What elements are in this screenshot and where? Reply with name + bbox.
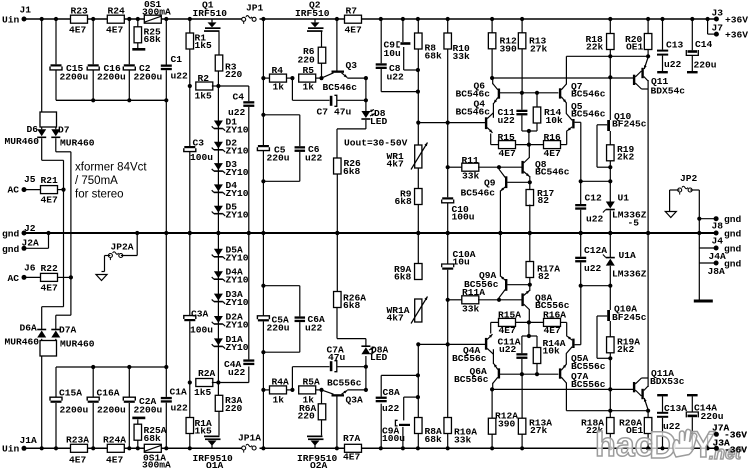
svg-text:C8A: C8A: [383, 387, 401, 398]
svg-text:BC556c: BC556c: [454, 374, 489, 385]
svg-text:2k2: 2k2: [617, 152, 635, 163]
svg-text:ZY10: ZY10: [226, 210, 249, 221]
svg-text:J4: J4: [712, 236, 724, 247]
svg-text:+36V: +36V: [725, 29, 748, 40]
svg-text:2200u: 2200u: [97, 72, 126, 83]
svg-text:33k: 33k: [462, 171, 480, 182]
svg-text:gnd: gnd: [724, 258, 742, 269]
svg-text:4k7: 4k7: [387, 158, 405, 169]
svg-text:4E7: 4E7: [106, 454, 124, 465]
svg-text:R11: R11: [462, 155, 480, 166]
svg-text:4E7: 4E7: [69, 454, 87, 465]
svg-text:4E7: 4E7: [544, 148, 562, 159]
svg-text:100u: 100u: [452, 211, 475, 222]
svg-text:10u: 10u: [384, 48, 402, 59]
svg-text:R24: R24: [108, 5, 126, 16]
svg-text:220: 220: [225, 69, 243, 80]
svg-text:ZY10: ZY10: [226, 146, 249, 157]
svg-text:R15: R15: [498, 132, 516, 143]
svg-text:gnd: gnd: [724, 228, 742, 239]
svg-text:1k: 1k: [303, 81, 315, 92]
svg-text:6k8: 6k8: [395, 196, 413, 207]
svg-text:R4: R4: [272, 65, 284, 76]
svg-text:390: 390: [500, 43, 518, 54]
svg-text:10u: 10u: [453, 256, 471, 267]
svg-text:R5A: R5A: [303, 377, 321, 388]
svg-text:BDX53c: BDX53c: [650, 376, 685, 387]
svg-text:68k: 68k: [425, 50, 443, 61]
svg-text:C13A: C13A: [664, 403, 687, 414]
svg-text:100u: 100u: [190, 152, 213, 163]
svg-text:220u: 220u: [267, 152, 290, 163]
svg-text:2200u: 2200u: [60, 72, 89, 83]
svg-text:gnd: gnd: [724, 243, 742, 254]
svg-text:300mA: 300mA: [142, 6, 171, 17]
svg-text:27k: 27k: [530, 425, 548, 436]
svg-text:1k: 1k: [273, 394, 285, 405]
svg-text:47u: 47u: [334, 107, 352, 118]
svg-text:LM336Z: LM336Z: [612, 269, 647, 280]
svg-text:u22: u22: [305, 152, 323, 163]
svg-text:Uin: Uin: [2, 14, 20, 25]
svg-text:BF245c: BF245c: [612, 312, 647, 323]
svg-text:u22: u22: [584, 263, 602, 274]
svg-text:2200u: 2200u: [97, 404, 126, 415]
svg-text:220u: 220u: [267, 323, 290, 334]
svg-text:J3: J3: [712, 7, 724, 18]
svg-text:J8: J8: [712, 221, 724, 232]
svg-text:JP1A: JP1A: [238, 433, 261, 444]
svg-text:/ 750mA: / 750mA: [75, 175, 118, 187]
svg-text:U1: U1: [618, 192, 630, 203]
svg-text:u22: u22: [664, 59, 682, 70]
svg-text:4E7: 4E7: [69, 24, 87, 35]
svg-text:R4A: R4A: [272, 377, 290, 388]
svg-text:xformer 84Vct: xformer 84Vct: [75, 162, 147, 174]
svg-text:C12: C12: [585, 192, 603, 203]
svg-text:4E7: 4E7: [41, 283, 59, 294]
svg-text:U1A: U1A: [619, 250, 637, 261]
svg-text:D7: D7: [58, 124, 70, 135]
svg-text:Q3: Q3: [346, 60, 358, 71]
svg-text:R2A: R2A: [198, 368, 216, 379]
svg-text:4E7: 4E7: [499, 148, 517, 159]
svg-text:68k: 68k: [144, 433, 162, 444]
svg-text:LED: LED: [370, 116, 388, 127]
svg-text:4E7: 4E7: [544, 325, 562, 336]
svg-text:gnd: gnd: [2, 229, 20, 240]
svg-text:+36V: +36V: [725, 14, 748, 25]
svg-text:IRF9510: IRF9510: [297, 453, 338, 464]
svg-text:220u: 220u: [701, 411, 724, 422]
svg-text:BC546c: BC546c: [535, 167, 570, 178]
svg-text:2200u: 2200u: [134, 72, 163, 83]
svg-text:1k5: 1k5: [195, 91, 213, 102]
svg-text:Q3A: Q3A: [346, 395, 364, 406]
svg-text:220: 220: [298, 411, 316, 422]
svg-text:68k: 68k: [144, 34, 162, 45]
svg-text:C15A: C15A: [59, 387, 82, 398]
svg-text:hac: hac: [595, 426, 654, 464]
svg-text:ZY10: ZY10: [226, 167, 249, 178]
svg-text:10k: 10k: [543, 346, 561, 357]
svg-text:MUR460: MUR460: [60, 338, 95, 349]
svg-text:J5: J5: [24, 174, 36, 185]
svg-text:1k5: 1k5: [194, 387, 212, 398]
svg-text:MUR460: MUR460: [5, 336, 40, 347]
svg-text:C13: C13: [666, 39, 684, 50]
svg-text:R21: R21: [41, 175, 59, 186]
svg-text:ZY10: ZY10: [226, 320, 249, 331]
svg-text:D7A: D7A: [59, 324, 77, 335]
svg-text:C1A: C1A: [170, 386, 188, 397]
svg-text:C7: C7: [317, 107, 329, 118]
svg-text:ZY10: ZY10: [226, 188, 249, 199]
svg-text:22k: 22k: [586, 42, 604, 53]
svg-text:10k: 10k: [546, 115, 564, 126]
svg-text:MUR460: MUR460: [5, 136, 40, 147]
svg-text:2200u: 2200u: [60, 404, 89, 415]
svg-text:33k: 33k: [462, 303, 480, 314]
svg-text:ZY10: ZY10: [226, 297, 249, 308]
svg-text:ZY10: ZY10: [226, 124, 249, 135]
svg-text:AC: AC: [8, 273, 20, 284]
svg-text:u22: u22: [382, 403, 400, 414]
svg-text:J6: J6: [24, 262, 36, 273]
svg-text:-36V: -36V: [724, 444, 747, 455]
svg-text:BC556c: BC556c: [571, 379, 606, 390]
svg-text:R15A: R15A: [498, 310, 521, 321]
svg-text:BC546c: BC546c: [323, 82, 358, 93]
svg-text:AC: AC: [8, 184, 20, 195]
svg-text:390: 390: [498, 418, 516, 429]
svg-text:BF245c: BF245c: [612, 119, 647, 130]
svg-text:D6: D6: [27, 124, 39, 135]
svg-text:JP2A: JP2A: [111, 241, 134, 252]
svg-text:1k5: 1k5: [195, 426, 213, 437]
svg-text:C1: C1: [171, 54, 183, 65]
svg-text:R16A: R16A: [543, 310, 566, 321]
svg-text:R7A: R7A: [343, 433, 361, 444]
svg-text:u22: u22: [228, 367, 246, 378]
svg-text:IRF510: IRF510: [193, 8, 228, 19]
svg-text:2200u: 2200u: [134, 404, 163, 415]
svg-text:4E7: 4E7: [41, 194, 59, 205]
svg-text:C3: C3: [193, 137, 205, 148]
svg-text:C12A: C12A: [584, 245, 607, 256]
svg-text:C14: C14: [695, 39, 713, 50]
svg-text:gnd: gnd: [2, 244, 20, 255]
svg-text:4E7: 4E7: [343, 451, 361, 462]
svg-text:33k: 33k: [453, 51, 471, 62]
svg-text:BC546c: BC546c: [456, 107, 491, 118]
svg-text:gnd: gnd: [724, 214, 742, 225]
svg-text:6k8: 6k8: [394, 272, 412, 283]
svg-text:6k8: 6k8: [343, 300, 361, 311]
svg-text:D6A: D6A: [20, 322, 38, 333]
svg-text:2k2: 2k2: [617, 344, 635, 355]
svg-text:4E7: 4E7: [345, 24, 363, 35]
svg-text:u22: u22: [387, 71, 405, 82]
svg-text:IRF510: IRF510: [295, 8, 330, 19]
svg-text:BDX54c: BDX54c: [651, 85, 686, 96]
svg-text:JP2: JP2: [680, 173, 698, 184]
svg-text:R22: R22: [41, 263, 59, 274]
svg-text:Uin: Uin: [2, 443, 20, 454]
svg-text:27k: 27k: [530, 43, 548, 54]
svg-text:R5: R5: [303, 65, 315, 76]
svg-text:BC556c: BC556c: [452, 353, 487, 364]
svg-text:J7: J7: [712, 22, 724, 33]
svg-text:ZY10: ZY10: [226, 342, 249, 353]
svg-text:220: 220: [225, 403, 243, 414]
svg-text:BC546c: BC546c: [461, 187, 496, 198]
svg-text:82: 82: [538, 271, 550, 282]
svg-text:MUR460: MUR460: [60, 138, 95, 149]
svg-text:R23: R23: [71, 5, 89, 16]
svg-text:LED: LED: [370, 352, 388, 363]
svg-text:BC556c: BC556c: [464, 279, 499, 290]
svg-text:JP1: JP1: [246, 2, 264, 13]
svg-text:BC546c: BC546c: [571, 89, 606, 100]
svg-text:100u: 100u: [382, 433, 405, 444]
svg-text:R7: R7: [346, 5, 358, 16]
svg-text:220u: 220u: [694, 59, 717, 70]
svg-text:33k: 33k: [454, 434, 472, 445]
svg-text:4E7: 4E7: [499, 325, 517, 336]
svg-text:C16A: C16A: [97, 387, 120, 398]
svg-text:ZY10: ZY10: [226, 252, 249, 263]
svg-text:J1: J1: [20, 4, 32, 15]
svg-text:J1A: J1A: [20, 435, 38, 446]
svg-text:R2: R2: [198, 73, 210, 84]
svg-text:300mA: 300mA: [142, 460, 171, 469]
svg-text:u22: u22: [586, 213, 604, 224]
svg-text:BC546c: BC546c: [571, 108, 606, 119]
svg-text:220: 220: [298, 55, 316, 66]
svg-text:for stereo: for stereo: [75, 189, 124, 201]
svg-text:OE1: OE1: [626, 42, 644, 53]
svg-text:1k5: 1k5: [195, 40, 213, 51]
svg-text:R23A: R23A: [66, 434, 89, 445]
svg-text:100u: 100u: [190, 324, 213, 335]
svg-text:4k7: 4k7: [387, 313, 405, 324]
svg-text:u22: u22: [498, 115, 516, 126]
svg-text:u22: u22: [171, 70, 189, 81]
svg-text:6k8: 6k8: [343, 166, 361, 177]
svg-text:C4: C4: [233, 92, 245, 103]
svg-text:47u: 47u: [328, 352, 346, 363]
svg-text:4E7: 4E7: [106, 24, 124, 35]
svg-text:BC556c: BC556c: [327, 378, 362, 389]
svg-text:68k: 68k: [425, 434, 443, 445]
svg-text:-5: -5: [628, 217, 640, 228]
svg-text:82: 82: [538, 195, 550, 206]
svg-text:ZY10: ZY10: [226, 275, 249, 286]
svg-text:IRF9510: IRF9510: [193, 453, 234, 464]
svg-text:u22: u22: [499, 344, 517, 355]
svg-text:C3A: C3A: [191, 308, 209, 319]
svg-text:J8A: J8A: [708, 266, 726, 277]
svg-text:1k: 1k: [273, 81, 285, 92]
svg-text:u22: u22: [305, 323, 323, 334]
svg-text:Uout=30-50V: Uout=30-50V: [344, 138, 408, 149]
svg-text:u22: u22: [171, 403, 189, 414]
svg-text:R24A: R24A: [103, 434, 126, 445]
svg-text:R16: R16: [544, 132, 562, 143]
